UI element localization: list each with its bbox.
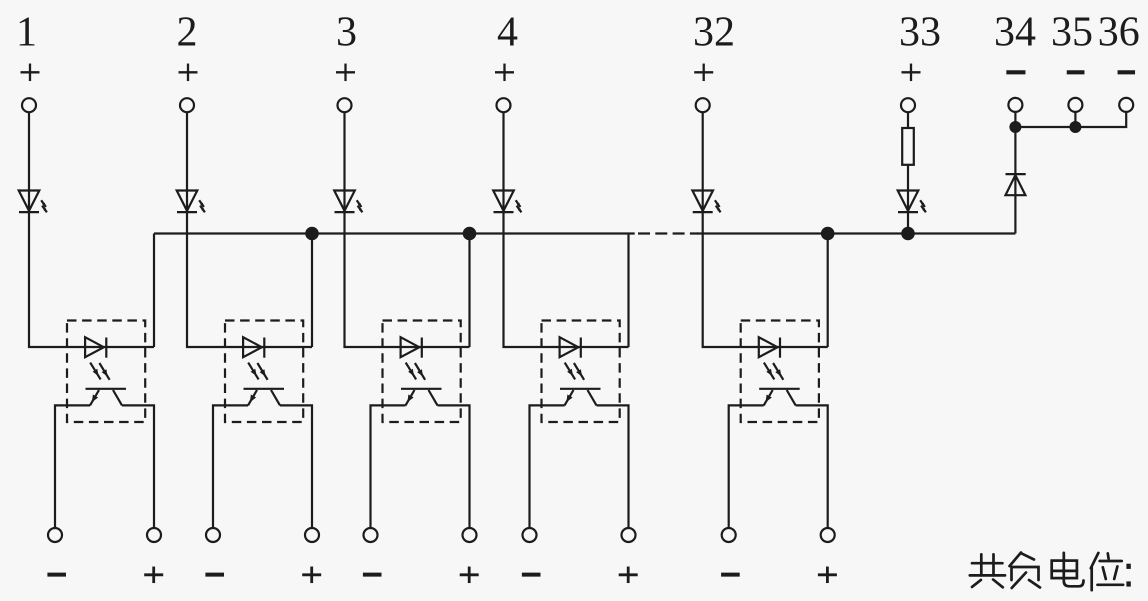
wire <box>1015 112 1126 127</box>
wire <box>729 405 764 528</box>
wire <box>468 234 470 348</box>
wire <box>703 212 828 347</box>
plus label channel 4 <box>619 573 638 576</box>
optocoupler channel 4 <box>542 321 620 423</box>
wire <box>502 112 504 212</box>
terminal 2 <box>180 98 194 112</box>
plus label channel 2 <box>302 573 321 576</box>
output terminal channel 1 plus <box>147 528 161 542</box>
plus sign terminal 2 <box>179 71 198 73</box>
wire <box>530 405 565 528</box>
output terminal channel 3 minus <box>364 528 378 542</box>
wire <box>627 234 629 348</box>
optocoupler channel 1 <box>67 321 145 423</box>
svg-text:32: 32 <box>693 10 735 56</box>
terminal 36 <box>1119 98 1133 112</box>
LED indicator channel 4 <box>493 191 521 213</box>
wire <box>504 212 629 347</box>
minus label channel 3 <box>363 573 382 577</box>
wire <box>345 212 470 347</box>
wire <box>907 165 909 212</box>
optocoupler channel 2 <box>225 321 303 423</box>
wire <box>343 112 345 212</box>
wire <box>438 405 470 528</box>
wire <box>1014 127 1016 234</box>
LED indicator channel 33 <box>898 191 926 213</box>
output terminal channel 1 minus <box>48 528 62 542</box>
svg-text:36: 36 <box>1098 10 1140 56</box>
terminal 32 <box>696 98 710 112</box>
terminal 3 <box>338 98 352 112</box>
wire <box>1074 112 1076 127</box>
LED indicator channel 2 <box>177 191 205 213</box>
minus label channel 32 <box>721 573 740 577</box>
minus sign terminal 34 <box>1006 70 1025 74</box>
junction <box>463 227 477 241</box>
terminal 1 <box>22 98 36 112</box>
wire <box>796 405 828 528</box>
wire <box>702 112 704 212</box>
plus sign terminal 4 <box>495 71 514 73</box>
LED indicator channel 32 <box>692 191 720 213</box>
resistor R1 <box>902 128 914 165</box>
common bus wire <box>154 232 635 234</box>
dashed bus continuation (channels 5..31) <box>638 232 698 234</box>
wire <box>55 405 90 528</box>
wire <box>371 405 406 528</box>
common bus wire right <box>697 232 1015 234</box>
caption: common negative potential <box>970 553 1131 591</box>
optocoupler channel 3 <box>383 321 461 423</box>
LED indicator channel 1 <box>19 191 47 213</box>
LED indicator channel 3 <box>334 191 362 213</box>
wire <box>28 112 30 212</box>
wire <box>907 212 909 233</box>
wire <box>280 405 312 528</box>
junction <box>821 227 835 241</box>
wire <box>29 212 154 347</box>
plus sign terminal 32 <box>694 71 713 73</box>
terminal 33 <box>901 98 915 112</box>
output terminal channel 3 plus <box>463 528 477 542</box>
minus label channel 2 <box>205 573 224 577</box>
wire <box>597 405 629 528</box>
wire <box>213 405 248 528</box>
terminal 35 <box>1068 98 1082 112</box>
terminal 4 <box>497 98 511 112</box>
svg-text:33: 33 <box>899 10 941 56</box>
output terminal channel 4 plus <box>622 528 636 542</box>
minus label channel 4 <box>522 573 541 577</box>
wire <box>186 112 188 212</box>
minus sign terminal 36 <box>1118 70 1136 74</box>
svg-text:1: 1 <box>16 10 37 56</box>
plus label channel 3 <box>460 573 479 576</box>
junction <box>901 227 915 241</box>
svg-text:3: 3 <box>336 10 357 56</box>
minus label channel 1 <box>47 573 66 577</box>
output terminal channel 2 plus <box>305 528 319 542</box>
output terminal channel 32 plus <box>821 528 835 542</box>
terminal 34 <box>1008 98 1022 112</box>
plus label channel 1 <box>144 573 163 576</box>
wire <box>122 405 154 528</box>
minus sign terminal 35 <box>1067 70 1085 74</box>
wire <box>153 234 155 348</box>
svg-text:35: 35 <box>1051 10 1093 56</box>
wire <box>827 234 829 348</box>
optocoupler channel 32 <box>741 321 819 423</box>
output terminal channel 2 minus <box>206 528 220 542</box>
plus sign terminal 1 <box>21 71 40 73</box>
output terminal channel 32 minus <box>722 528 736 542</box>
junction <box>1069 121 1081 133</box>
svg-text:4: 4 <box>497 10 518 56</box>
junction <box>305 227 319 241</box>
wire <box>311 234 313 348</box>
svg-text:34: 34 <box>994 10 1036 56</box>
plus sign terminal 33 <box>902 71 921 73</box>
wire <box>1014 112 1016 127</box>
plus label channel 32 <box>818 573 837 576</box>
plus sign terminal 3 <box>336 71 355 73</box>
output terminal channel 4 minus <box>523 528 537 542</box>
diode D1 <box>1006 174 1026 195</box>
wire <box>187 212 312 347</box>
wire <box>907 112 909 128</box>
junction <box>1009 121 1021 133</box>
svg-text:2: 2 <box>177 10 198 56</box>
